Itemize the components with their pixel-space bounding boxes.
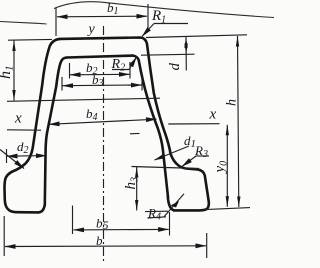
b1: [55, 8, 57, 36]
decorative top break curves: [0, 22, 46, 25]
svg-text:x: x: [14, 111, 22, 127]
h1: [8, 38, 52, 41]
y axis dash-dot: [103, 26, 105, 262]
svg-text:h: h: [225, 99, 240, 106]
R4 corner right foot: [168, 197, 174, 211]
h: [238, 36, 239, 207]
h top extension: [146, 35, 247, 38]
b4: [49, 119, 157, 124]
b3: [61, 77, 63, 91]
d dimension: [141, 54, 195, 55]
b2: [69, 63, 71, 79]
svg-text:d: d: [167, 63, 183, 71]
svg-text:b5: b5: [96, 216, 109, 233]
b: [3, 216, 5, 256]
svg-text:x: x: [209, 107, 217, 123]
inner contour: left inner wall: [45, 58, 67, 206]
inner top surface: [67, 56, 133, 58]
y0: [226, 125, 228, 207]
bottom right extension: [205, 208, 250, 210]
left outer wall + left foot: [4, 39, 60, 213]
h3: [132, 167, 200, 169]
b5: [72, 206, 74, 235]
right inner wall: [133, 56, 168, 197]
profile outer contour: top + right wall + right foot: [60, 38, 209, 211]
svg-text:b: b: [96, 233, 103, 248]
svg-text:y: y: [87, 22, 96, 37]
